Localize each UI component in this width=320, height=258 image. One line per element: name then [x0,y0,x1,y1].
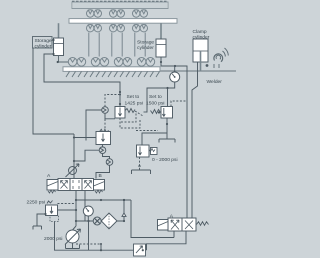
welder wheel [206,48,229,68]
svg-text:B: B [99,173,102,179]
wire: T drop to return line [84,191,86,222]
storage cylinder left [54,23,64,55]
storage cylinder right [156,23,166,57]
crosshead white bar [69,19,177,24]
pressure reducing valve 0-2000 psi [137,145,158,157]
return manifold line [76,220,124,250]
relief drain to bottom return [55,222,134,251]
supply branch line [76,199,131,201]
svg-text:cylinder: cylinder [193,35,210,41]
welder platen line [161,70,237,72]
middle counterbalance valve [73,129,111,144]
svg-text:Set to: Set to [127,94,140,100]
check valve (1425 branch) [86,95,120,141]
bypass around counterbalance [73,150,99,162]
pump [65,229,81,249]
roller pair bottom row [68,58,154,67]
svg-text:Set to: Set to [149,94,162,100]
roller pair row 2 [87,24,148,32]
relief valve 1500 psi [144,101,187,118]
svg-text:Storage: Storage [35,38,52,44]
pressure gauge bottom [83,206,93,221]
clamp cylinder [193,39,208,71]
directional valve 4/2 clamp [158,218,209,231]
svg-text:cylinder: cylinder [137,45,154,51]
reducing valve drain + tank [132,157,151,174]
MACHINE [63,1,236,77]
wire: left cylinder to lower machine [57,56,68,64]
flow control box [100,244,146,256]
svg-text:2000 psi: 2000 psi [44,236,63,242]
wire: label-box left drop to valve A line [33,48,74,134]
press cylinder bodies [89,33,145,57]
svg-text:Welder: Welder [207,79,223,85]
pressure gauge top [146,66,180,112]
wire: clamp cylinder line to 4/2 valve [192,62,198,218]
svg-text:cylinder: cylinder [35,44,52,50]
flow control on A line [66,134,80,179]
check valve below counterbalance [99,145,109,159]
platen bar with ground hatch [63,67,160,77]
wire: 1500 valve drain + tank [142,118,175,145]
directional valve 4/3 [47,179,105,194]
roller pair row 1 [87,10,148,18]
pilot lines 1425 (dashed) [105,114,140,130]
wire: supply down right [131,200,174,238]
svg-text:1500 psi: 1500 psi [146,101,165,107]
svg-text:2250 psi: 2250 psi [27,200,46,206]
bypass check [122,199,126,222]
wire: 4/2 T to flow box [147,231,187,250]
top beam [72,1,168,8]
svg-text:0 - 2000 psi: 0 - 2000 psi [152,157,178,163]
filter [101,213,117,229]
test point circle [93,217,101,225]
wire: right cylinder to right riser [160,57,187,218]
wire: left cylinder port loop A (to 1425 valve) [44,39,121,107]
svg-text:Clamp: Clamp [193,29,207,35]
relief valve 2250 psi [33,201,76,230]
wire: P riser pump to valve [73,191,78,231]
svg-text:Storage: Storage [137,40,154,46]
pilot dashed to reducing valve [136,130,158,132]
svg-text:1425 psi: 1425 psi [125,101,144,107]
relief valve 1425 psi [115,107,143,119]
storage cylinder left label box [33,37,53,49]
check valve 2 (drain to valve B) [96,159,113,179]
